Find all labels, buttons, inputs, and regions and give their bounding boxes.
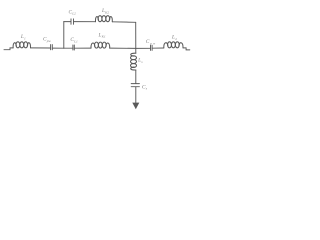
svg-text:Cpw: Cpw	[43, 37, 51, 43]
svg-text:Ls: Ls	[137, 58, 143, 64]
svg-text:CL1: CL1	[70, 37, 78, 43]
svg-text:Cs: Cs	[142, 84, 148, 90]
svg-text:Cpw: Cpw	[146, 39, 156, 46]
svg-text:CL2: CL2	[69, 9, 77, 15]
svg-text:L2: L2	[171, 35, 177, 41]
svg-text:LK2: LK2	[101, 8, 109, 14]
svg-text:LK1: LK1	[98, 32, 106, 38]
svg-text:L1: L1	[20, 34, 26, 40]
